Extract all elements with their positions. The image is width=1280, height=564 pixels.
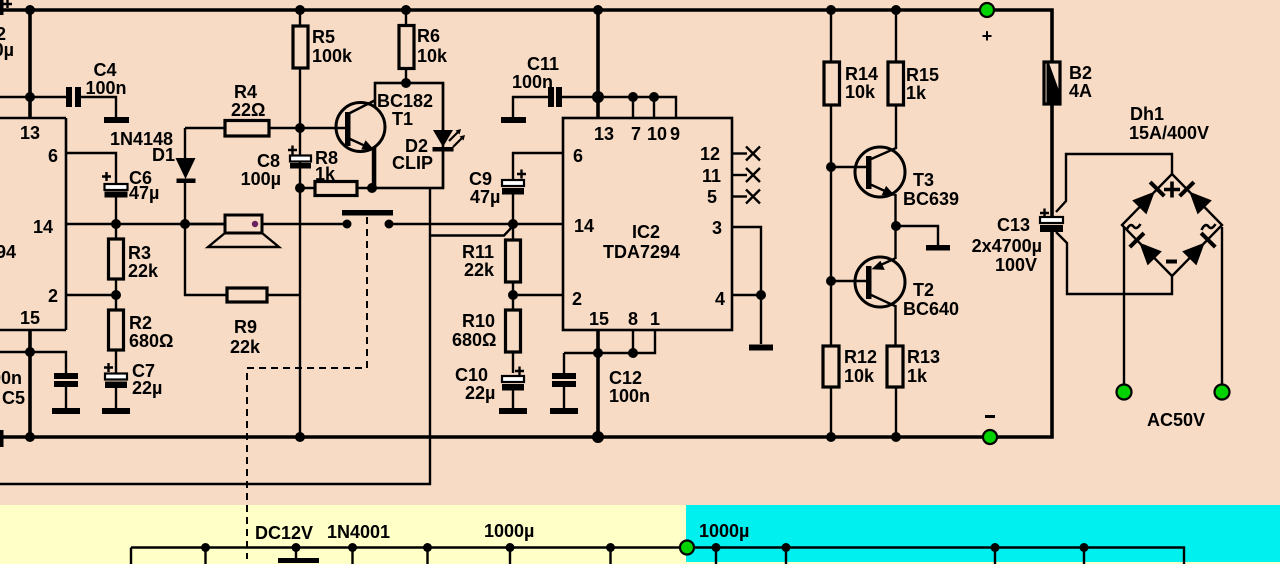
node R3/R2 junction [111, 290, 121, 300]
node R12 on bottom bus [826, 432, 836, 442]
node pin15/C5 junction [25, 347, 35, 357]
node on pin13 wire [25, 5, 35, 15]
svg-text:R13: R13 [907, 347, 940, 367]
wire: IC1 pin 15 to bottom bus [28, 330, 32, 437]
label ~ right [1202, 224, 1216, 230]
svg-text:15A/400V: 15A/400V [1129, 123, 1209, 143]
resistor R4 22Ω [185, 127, 300, 129]
svg-text:6: 6 [573, 146, 583, 166]
node C6/R3 junction [111, 219, 121, 229]
speaker [185, 223, 347, 225]
wire: IC1 pin 14 row [66, 223, 225, 225]
capacitor C8 100µ (electrolytic) [288, 146, 297, 155]
ground bar at C5 [52, 408, 80, 414]
resistor R12 10k [823, 346, 839, 387]
node R8 left junction [295, 183, 305, 193]
node R13 on bottom bus [891, 432, 901, 442]
not connected pin 12 [732, 152, 747, 154]
wire from switch to IC2 pin 14 [393, 223, 563, 225]
LED D2 (clip indicator) [442, 83, 444, 188]
ground bar at C10 [499, 408, 527, 414]
node on supply rail [506, 543, 515, 552]
node on supply rail [423, 543, 432, 552]
svg-text:B2: B2 [1069, 63, 1092, 83]
svg-text:8: 8 [628, 309, 638, 329]
svg-text:2: 2 [48, 286, 58, 306]
node: cut-off terminal at left edge of bottom bus [0, 430, 4, 447]
svg-text:22µ: 22µ [132, 378, 162, 398]
capacitor C5 100n [54, 373, 78, 379]
transistor T1 BC182 [336, 103, 385, 152]
svg-text:1000µ: 1000µ [484, 521, 534, 541]
ground bar at C7 [102, 408, 130, 414]
node T3 base junction [826, 162, 836, 172]
terminal on supply rail (green) [680, 541, 694, 555]
node on supply rail [201, 543, 210, 552]
svg-text:CLIP: CLIP [392, 153, 433, 173]
node C11 junction [592, 91, 604, 103]
ground bar at C11 [501, 117, 526, 123]
capacitor C6 47µ (electrolytic) [102, 172, 111, 181]
resistor R6 10k [405, 10, 407, 83]
not connected pin 11 [732, 174, 747, 176]
svg-text:TDA7294: TDA7294 [0, 242, 16, 262]
node pin 8 junction [628, 348, 638, 358]
resistor R13 1k [887, 346, 903, 387]
capacitor C10 22µ (electrolytic) [515, 367, 524, 376]
svg-text:BC640: BC640 [903, 299, 959, 319]
svg-text:C11: C11 [527, 54, 559, 74]
svg-text:10: 10 [647, 124, 667, 144]
dashed mechanical link of standby switch [247, 217, 367, 559]
svg-text:47µ: 47µ [129, 183, 159, 203]
wire: speaker-return jog to pin 14 node [431, 226, 513, 236]
node T1 emitter junction [367, 183, 377, 193]
node R5 column on bottom bus [295, 432, 305, 442]
svg-text:100n: 100n [609, 386, 650, 406]
svg-text:5: 5 [707, 187, 717, 207]
standby switch [342, 210, 393, 216]
svg-text:C5: C5 [2, 388, 25, 408]
wire: IC2 pin 13 to top bus [596, 10, 600, 118]
svg-text:R12: R12 [844, 347, 877, 367]
svg-text:100V: 100V [995, 255, 1037, 275]
svg-text:15: 15 [20, 308, 40, 328]
node DC12V diode tap [292, 543, 301, 552]
node pin 10 [649, 92, 659, 102]
svg-text:C13: C13 [997, 215, 1030, 235]
wire to C4 [30, 96, 66, 98]
svg-text:9: 9 [670, 124, 680, 144]
svg-text:100n: 100n [512, 72, 553, 92]
node T3/T2 emitter junction [891, 221, 901, 231]
svg-text:R10: R10 [462, 311, 495, 331]
svg-text:Dh1: Dh1 [1130, 104, 1164, 124]
svg-text:DC12V: DC12V [255, 523, 313, 543]
bridge diode bottom-left [1139, 243, 1162, 266]
capacitor C4 [66, 87, 72, 107]
svg-text:BC639: BC639 [903, 189, 959, 209]
node R6/T1 collector junction [401, 78, 411, 88]
svg-text:680Ω: 680Ω [129, 331, 173, 351]
node pin15 on bottom bus [25, 432, 35, 442]
resistor R9 22k [185, 224, 300, 295]
svg-text:+: + [982, 26, 993, 46]
ground bar at T3/T2 emitters [926, 245, 950, 251]
svg-text:2: 2 [572, 289, 582, 309]
node pin15 on bottom bus [592, 431, 604, 443]
wire: pins 7 10 9 tie [598, 97, 676, 118]
svg-text:1N4001: 1N4001 [327, 522, 390, 542]
wire: bridge AC right to terminal [1221, 227, 1223, 385]
wire: bridge - output to C13 bottom [1056, 232, 1172, 294]
wire B2 to C13 [1050, 104, 1054, 217]
svg-text:100n: 100n [85, 78, 126, 98]
terminal + of supply (green) [980, 3, 994, 17]
svg-text:2x4700µ: 2x4700µ [972, 236, 1042, 256]
capacitor C12 100n [563, 353, 565, 373]
capacitor C9 47µ (electrolytic) [513, 153, 563, 180]
svg-text:22k: 22k [464, 260, 495, 280]
node on supply rail [991, 543, 1000, 552]
svg-text:BC182: BC182 [377, 91, 433, 111]
node C9/R11 junction [508, 219, 518, 229]
clip indicator box around T1/D2 [375, 83, 443, 188]
svg-text:T2: T2 [913, 280, 934, 300]
terminal AC right (green) [1215, 385, 1230, 400]
svg-text:R15: R15 [906, 65, 939, 85]
node pin3/pin4 junction [756, 290, 766, 300]
wire C5 branch [0, 352, 66, 373]
svg-text:15: 15 [589, 309, 609, 329]
node T2 base junction [826, 276, 836, 286]
wire: speaker return from clip box to left edge [0, 188, 430, 484]
svg-text:4A: 4A [1069, 81, 1092, 101]
terminal - of supply (green) [983, 430, 997, 444]
node on supply rail [782, 543, 791, 552]
light emission arrows of D2 [449, 131, 463, 147]
svg-text:AC50V: AC50V [1147, 410, 1205, 430]
svg-text:C8: C8 [257, 151, 280, 171]
ground bar at IC2 pin 4 [749, 345, 773, 351]
svg-text:22k: 22k [128, 261, 159, 281]
ground bar at C12 [550, 408, 578, 414]
bridge diode top-right [1189, 192, 1212, 215]
svg-text:14: 14 [33, 217, 53, 237]
resistor R2 680Ω [115, 295, 117, 373]
svg-text:1000µ: 1000µ [699, 521, 749, 541]
capacitor C2 (cut off at left edge) lead [0, 0, 4, 15]
wire: bridge AC left to terminal [1123, 227, 1125, 385]
wire: IC1 pin 2 row [66, 294, 116, 296]
label ~ left [1127, 224, 1141, 230]
node R4/R5/T1 base junction [295, 123, 305, 133]
wire C6 to pin14 node [115, 198, 117, 225]
svg-text:22Ω: 22Ω [231, 100, 265, 120]
svg-text:C9: C9 [469, 169, 492, 189]
node on supply rail [712, 543, 721, 552]
svg-text:10k: 10k [417, 46, 448, 66]
transistor T2 BC640 [894, 226, 896, 259]
svg-text:1: 1 [650, 309, 660, 329]
resistor R10 680Ω [512, 295, 514, 373]
svg-text:10k: 10k [844, 366, 875, 386]
svg-text:47µ: 47µ [470, 187, 500, 207]
wire: IC2 pin 15 to bottom bus [596, 330, 600, 437]
ground bar at C4 [104, 117, 129, 123]
svg-text:7: 7 [631, 124, 641, 144]
svg-text:C10: C10 [455, 365, 488, 385]
svg-text:R9: R9 [234, 317, 257, 337]
svg-text:C4: C4 [93, 60, 116, 80]
svg-text:R5: R5 [312, 27, 335, 47]
capacitor C11 100n [548, 87, 554, 107]
svg-text:100n: 100n [0, 368, 22, 388]
svg-text:22µ: 22µ [465, 383, 495, 403]
resistor R8 1k [300, 187, 375, 189]
wire: low-voltage supply rail [131, 548, 1184, 564]
wire: pins 8 and 1 tie to C12 [564, 330, 655, 353]
label - inside bridge [1166, 260, 1177, 264]
svg-text:R14: R14 [845, 64, 878, 84]
svg-text:6: 6 [48, 146, 58, 166]
svg-text:22k: 22k [230, 337, 261, 357]
svg-text:100k: 100k [312, 46, 353, 66]
wire emitters to ground [896, 226, 938, 245]
wire to IC2 pin 2 [513, 294, 563, 296]
bridge diode top-left [1132, 192, 1155, 215]
terminal AC left (green) [1117, 385, 1132, 400]
wire: negative supply bus (bottom rail) [0, 230, 1052, 437]
node pin 7 [628, 92, 638, 102]
wire: IC1 pin 13 to top bus [28, 10, 32, 118]
low-voltage supply area (yellow) [0, 505, 1280, 564]
svg-text:12: 12 [700, 144, 720, 164]
label + inside bridge [1164, 182, 1180, 198]
wire C4 to ground [81, 97, 116, 117]
fuse B2 4A [1044, 62, 1060, 104]
wire: bridge + output to C13 top [1056, 154, 1172, 212]
bridge rectifier Dh1 diamond [1122, 174, 1222, 276]
node on supply rail [1080, 543, 1089, 552]
resistor R15 1k [895, 10, 897, 62]
node pin15/C12 junction [593, 348, 603, 358]
svg-text:R2: R2 [129, 313, 152, 333]
capacitor C13 2x4700µ (electrolytic) [1040, 209, 1049, 218]
resistor R14 10k [830, 10, 832, 62]
svg-text:R11: R11 [462, 242, 494, 262]
svg-text:13: 13 [594, 124, 614, 144]
svg-text:R4: R4 [234, 82, 257, 102]
wire: R5 column down to bottom bus [299, 128, 301, 437]
svg-text:TDA7294: TDA7294 [603, 242, 680, 262]
svg-text:10k: 10k [845, 82, 876, 102]
polarity + of C2 [3, 0, 12, 8]
capacitor C7 22µ (electrolytic) [104, 363, 113, 372]
diode D1 1N4148 [184, 128, 186, 224]
svg-text:4: 4 [715, 289, 725, 309]
resistor R11 22k [512, 224, 514, 295]
svg-text:D1: D1 [152, 145, 175, 165]
wire from C2 to pin13 node [0, 96, 30, 98]
op-amp IC1 TDA7294 (cut off at left edge) [0, 118, 66, 330]
label - at bottom terminal [985, 415, 995, 418]
node on supply rail [348, 543, 357, 552]
resistor R5 100k [299, 10, 301, 128]
svg-text:14: 14 [574, 216, 594, 236]
node D1/R9/speaker junction [180, 219, 190, 229]
wire: IC1 pin 6 to C6 [66, 153, 116, 184]
wire: IC2 pin 3 to ground [732, 227, 761, 295]
svg-text:R6: R6 [417, 26, 440, 46]
wire: IC2 pin 4 to ground [732, 295, 761, 344]
svg-text:T3: T3 [913, 170, 934, 190]
diode bar of DC12V regulator [278, 558, 319, 563]
svg-text:3: 3 [712, 218, 722, 238]
svg-text:IC2: IC2 [632, 222, 660, 242]
not connected pin 5 [732, 195, 747, 197]
node C4 junction [25, 92, 35, 102]
svg-text:C12: C12 [609, 368, 642, 388]
op-amp IC2 TDA7294 [563, 118, 732, 330]
svg-text:11: 11 [702, 166, 721, 186]
node on supply rail [606, 543, 615, 552]
svg-text:13: 13 [20, 123, 40, 143]
wire: positive supply bus (top rail) [0, 10, 1052, 62]
svg-text:680Ω: 680Ω [452, 330, 496, 350]
svg-text:100µ: 100µ [0, 40, 14, 60]
resistor R3 22k [115, 224, 117, 295]
svg-text:1k: 1k [315, 164, 336, 184]
wire: base column R14 to R12 [830, 105, 832, 346]
bridge diode bottom-right [1182, 243, 1205, 266]
svg-text:R3: R3 [128, 243, 151, 263]
svg-text:1k: 1k [906, 83, 927, 103]
transistor T3 BC639 [895, 105, 897, 149]
node R11/R10/IC2 pin2 junction [508, 290, 518, 300]
svg-text:1k: 1k [907, 366, 928, 386]
high-voltage supply area (cyan) [686, 505, 1280, 562]
svg-text:T1: T1 [392, 109, 413, 129]
svg-text:100µ: 100µ [241, 169, 281, 189]
